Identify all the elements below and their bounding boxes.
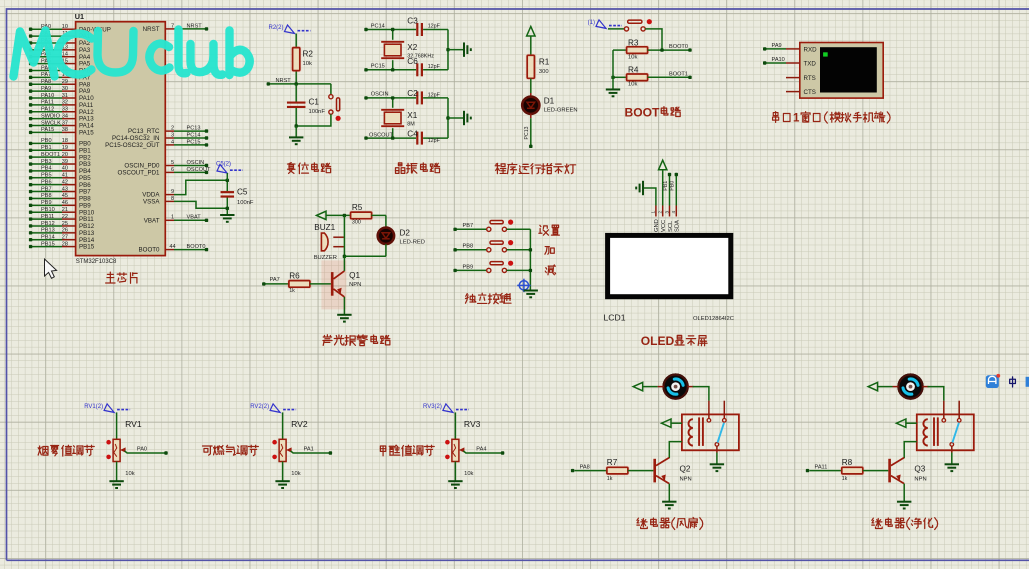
ground right of X1 [464,111,471,125]
resistor R2 [291,46,313,72]
svg-text:39: 39 [62,159,68,165]
svg-text:22: 22 [62,214,68,220]
svg-text:U1: U1 [75,12,84,21]
svg-text:PB9: PB9 [41,200,52,206]
ground below C5 [220,215,234,222]
wire coil bottom to collector [669,442,682,459]
ground Q2 [662,502,676,509]
ground right of X2 [464,42,471,56]
svg-text:NRST: NRST [187,23,203,29]
svg-text:SWDIO: SWDIO [41,113,61,119]
svg-text:45: 45 [62,193,68,199]
wire coil top [671,422,682,424]
ground relay switch [945,446,959,471]
transistor Q3 [888,458,926,502]
svg-text:7: 7 [171,23,174,29]
wiper wire PA1 [286,447,332,455]
resistor R4 [611,66,691,88]
key PB7 [453,220,530,232]
relay RL1 [682,401,739,451]
svg-text:BOOT0: BOOT0 [139,247,161,254]
pin VSSA (8) wire [143,196,227,209]
capacitor C2 [407,89,440,105]
svg-text:4: 4 [671,211,676,214]
svg-text:PA9: PA9 [41,86,51,92]
label 声光报警电路 [323,335,390,346]
svg-text:46: 46 [62,200,68,206]
svg-text:PA4: PA4 [476,447,486,453]
label 晶振电路 [395,163,439,174]
svg-text:PB5: PB5 [41,173,52,179]
svg-text:BOOT1: BOOT1 [41,152,60,158]
svg-text:PC13: PC13 [187,126,201,132]
svg-text:PB0: PB0 [41,138,52,144]
svg-text:RV3: RV3 [464,419,481,429]
wire coil bottom to collector [904,442,917,459]
svg-text:12pF: 12pF [428,92,441,98]
crystal X1 group wires [364,96,464,140]
pin VBAT (1) [144,215,208,225]
reset push button [295,84,341,128]
OLED pin stubs [651,206,681,233]
pin NRST (7) [143,23,209,33]
power flag RV2(2) [250,404,296,413]
svg-text:PA7: PA7 [270,277,280,283]
svg-text:LCD1: LCD1 [604,313,626,323]
transistor Q2 [653,458,691,502]
svg-text:PA12: PA12 [41,107,54,113]
label 主芯片 [106,272,137,283]
svg-text:BOOT0: BOOT0 [187,244,206,250]
svg-text:1k: 1k [607,476,613,482]
potentiometer RV3 [445,412,481,477]
svg-text:31: 31 [62,93,68,99]
capacitor C3 [407,16,440,36]
ground reset [289,126,303,144]
svg-text:CTS: CTS [804,89,816,96]
svg-text:PC15: PC15 [187,139,201,145]
svg-text:21: 21 [62,207,68,213]
svg-text:100nF: 100nF [237,200,254,206]
wire coil top [906,422,917,424]
svg-text:PB7: PB7 [463,223,474,229]
svg-text:R1: R1 [539,58,550,67]
pin CTS stub [786,91,800,93]
wiper wire PA4 [459,447,504,455]
svg-text:D2: D2 [400,228,411,237]
svg-text:40: 40 [62,166,68,172]
left PA pin wires [29,24,111,137]
boot button [608,19,662,50]
OLED display LCD1 [604,235,734,322]
svg-text:PB3: PB3 [41,159,52,165]
svg-text:37: 37 [62,120,68,126]
svg-text:10k: 10k [464,471,473,477]
ground RV1 [109,462,123,489]
svg-text:PB1: PB1 [41,145,52,151]
ground keys [524,291,538,298]
svg-text:R6: R6 [289,271,300,280]
svg-text:X1: X1 [407,111,417,120]
resistor R1 [526,36,550,80]
chip U1 STM32F103C8 [75,12,165,265]
svg-text:LED-GREEN: LED-GREEN [544,108,578,114]
svg-text:PC13: PC13 [524,126,530,139]
wiper wire PA0 [120,447,168,455]
svg-text:(1): (1) [588,20,595,26]
svg-text:SCL: SCL [668,220,674,232]
svg-text:RV3(2): RV3(2) [423,404,442,410]
svg-text:33: 33 [62,107,68,113]
svg-text:OSCIN: OSCIN [187,160,205,166]
svg-text:14: 14 [62,52,68,58]
svg-text:SWCLK: SWCLK [41,120,61,126]
buzzer BUZ1 [314,223,344,261]
svg-text:PA8: PA8 [580,464,590,470]
pin BOOT0 (44) [139,244,209,254]
svg-text:RV1: RV1 [125,419,142,429]
svg-text:NRST: NRST [276,78,292,84]
svg-text:C4: C4 [407,130,418,139]
wire PA10-TXD [763,57,800,65]
svg-text:PB12: PB12 [41,221,55,227]
wire motor [643,387,709,401]
wire motor [877,387,943,401]
crystal X1 [381,110,418,128]
svg-text:NPN: NPN [349,282,361,288]
label BOOT电路 [625,106,681,120]
svg-text:BOOT0: BOOT0 [669,44,688,50]
svg-text:18: 18 [62,138,68,144]
resistor R5 [326,203,386,226]
svg-text:BUZZER: BUZZER [314,255,337,261]
power arrow relay coil [662,419,672,427]
svg-text:C5(2): C5(2) [216,162,231,168]
svg-text:5: 5 [171,160,174,166]
label 加 [545,247,554,255]
svg-text:10k: 10k [628,82,637,88]
ground boot [606,50,620,96]
svg-text:RV1(2): RV1(2) [84,404,103,410]
svg-text:6: 6 [171,167,174,173]
key PB8 [453,240,530,252]
svg-text:PB11: PB11 [41,214,54,220]
key PB9 [453,261,530,273]
net PC13 wire [524,114,533,148]
svg-text:BUZ1: BUZ1 [314,223,335,232]
svg-text:300: 300 [352,220,361,226]
power flag (1) [588,20,622,29]
svg-text:26: 26 [62,228,68,234]
svg-text:28: 28 [62,241,68,247]
svg-text:PB15: PB15 [79,244,95,251]
svg-text:10k: 10k [125,471,134,477]
svg-text:C6: C6 [407,57,418,66]
watermark MCUclub [14,30,250,77]
svg-text:PB1: PB1 [663,181,669,191]
svg-text:VBAT: VBAT [187,215,202,221]
virtual terminal box [800,43,883,99]
svg-text:2: 2 [171,126,174,132]
svg-text:3: 3 [664,211,669,214]
svg-text:PC14: PC14 [371,23,385,29]
resistor R3 [613,38,692,60]
svg-text:PB8: PB8 [463,244,474,250]
crystal X2 group wires [364,28,464,72]
svg-text:1: 1 [171,215,174,221]
pins PC13 PC14 PC15 [105,126,208,150]
svg-text:BOOT1: BOOT1 [669,71,688,77]
svg-text:4: 4 [171,139,174,145]
wire OLED VCC power [659,160,667,205]
svg-text:PA1: PA1 [304,447,314,453]
wire NRST net [267,34,331,86]
ground RV2 [275,462,289,489]
left PB pin wires [29,138,95,251]
svg-text:3: 3 [171,132,174,138]
svg-text:RXD: RXD [804,46,818,53]
capacitor C1 [287,84,325,126]
svg-text:C3: C3 [407,16,418,25]
svg-text:RV2: RV2 [291,419,308,429]
svg-text:LED-RED: LED-RED [400,239,425,245]
svg-text:SDA: SDA [675,220,681,232]
svg-text:PB4: PB4 [41,166,52,172]
svg-text:PA10: PA10 [772,57,785,63]
svg-text:D1: D1 [544,97,555,106]
svg-text:C5: C5 [237,188,248,197]
svg-text:RV2(2): RV2(2) [250,404,269,410]
svg-text:OSCIN: OSCIN [371,92,389,98]
label 减 [545,265,555,275]
svg-text:Q3: Q3 [914,465,925,474]
svg-text:C1: C1 [309,98,320,107]
svg-text:1k: 1k [842,476,848,482]
svg-text:NPN: NPN [914,476,926,482]
svg-text:R5: R5 [352,203,363,212]
svg-text:42: 42 [62,179,68,185]
svg-text:PB9: PB9 [463,264,474,270]
svg-text:VSSA: VSSA [143,199,160,206]
svg-text:PB0: PB0 [670,181,676,191]
svg-text:10k: 10k [628,54,637,60]
svg-text:VBAT: VBAT [144,217,160,224]
wire PA9-RXD [763,43,800,51]
svg-text:OSCOUT_PD1: OSCOUT_PD1 [118,170,161,177]
pin VDDA (9) wire [142,180,227,198]
origin marker [517,279,530,292]
svg-text:R2: R2 [303,50,314,59]
mouse cursor [45,259,57,278]
wire buzzer vertical [343,215,386,258]
label 可燃气调节 [203,445,259,455]
svg-text:TXD: TXD [804,60,817,67]
label 设置 [539,225,559,235]
svg-text:41: 41 [62,173,68,179]
svg-text:PA11: PA11 [815,464,828,470]
label 烟雾值调节 [38,445,94,456]
svg-text:PA11: PA11 [41,100,54,106]
svg-text:43: 43 [62,186,68,192]
power flag RV1(2) [84,404,130,413]
potentiometer RV1 [106,412,142,477]
svg-text:R3: R3 [628,38,639,47]
svg-text:8M: 8M [407,122,415,128]
svg-text:OSCOUT: OSCOUT [369,132,394,138]
power flag R2(2) [268,25,310,34]
ground Q3 [897,502,911,509]
svg-text:2: 2 [658,211,663,214]
pin RTS stub [786,77,800,79]
svg-text:VCC: VCC [661,220,667,232]
svg-text:1k: 1k [289,288,295,294]
svg-text:BOOT: BOOT [625,106,660,120]
ground relay switch [710,446,724,471]
transistor Q1 [331,256,361,315]
label 继电器(净化) [872,518,938,530]
svg-text:1: 1 [793,113,800,125]
resistor R7 [571,458,654,482]
svg-text:PA15: PA15 [41,127,54,133]
svg-text:19: 19 [62,145,68,151]
taskbar icon blue [986,374,1000,388]
svg-text:8: 8 [171,196,174,202]
svg-text:PA15: PA15 [79,130,94,137]
svg-text:20: 20 [62,152,68,158]
svg-text:X2: X2 [407,43,417,52]
motor fan [662,373,688,399]
key bus wire [529,229,532,290]
power arrow motor [868,382,878,390]
svg-text:Q2: Q2 [680,465,691,474]
svg-text:PB6: PB6 [41,179,52,185]
taskbar icon partial [1026,377,1029,387]
svg-text:PB15: PB15 [41,241,55,247]
svg-text:12pF: 12pF [428,64,441,70]
svg-text:R2(2): R2(2) [268,25,283,31]
wire OLED SCL [663,173,671,206]
svg-text:10: 10 [62,24,68,30]
svg-text:12pF: 12pF [428,24,441,30]
svg-text:300: 300 [539,69,549,75]
power arrow motor [633,382,643,390]
taskbar icon 中 [1010,377,1016,387]
svg-text:PB14: PB14 [41,235,55,241]
wire OLED SDA [670,173,678,206]
resistor R8 [806,458,889,482]
label 甲醛值调节 [380,445,434,456]
ground RV3 [448,462,462,489]
svg-text:25: 25 [62,221,68,227]
svg-text:PB7: PB7 [41,186,52,192]
LED D2 [377,215,425,256]
svg-text:44: 44 [169,244,175,250]
resistor R6 [262,271,331,294]
power flag RV3(2) [423,404,469,413]
svg-text:PB13: PB13 [41,228,55,234]
svg-text:10k: 10k [291,471,300,477]
power arrow relay coil [896,419,906,427]
svg-text:PC14: PC14 [187,132,201,138]
power arrow D1 [527,27,535,37]
crystal X2 [381,42,434,60]
svg-text:R4: R4 [628,66,639,75]
svg-text:PB10: PB10 [41,207,55,213]
label 复位电路 [288,163,331,174]
svg-text:29: 29 [62,79,68,85]
svg-text:12pF: 12pF [428,138,441,144]
svg-text:34: 34 [62,113,68,119]
svg-text:PC15: PC15 [371,64,385,70]
capacitor C6 [407,57,440,76]
capacitor C5 [221,179,254,215]
svg-text:9: 9 [171,189,174,195]
label 串口1窗口（模拟手机端） [773,112,891,125]
svg-text:PA10: PA10 [41,93,54,99]
transistor Q1 highlight [321,260,346,309]
wire OLED GND [636,181,656,206]
svg-text:PA8: PA8 [41,79,51,85]
svg-text:10k: 10k [303,61,312,67]
relay RL2 [917,401,974,451]
svg-text:38: 38 [62,127,68,133]
svg-text:NPN: NPN [680,476,692,482]
motor fan [897,373,923,399]
svg-text:C2: C2 [407,89,418,98]
svg-text:R7: R7 [607,458,618,467]
svg-text:PB8: PB8 [41,193,52,199]
svg-text:RTS: RTS [804,75,816,82]
svg-text:GND: GND [654,219,660,232]
svg-text:100nF: 100nF [309,109,326,115]
label 继电器(风扇) [637,517,703,529]
svg-text:OLED12864I2C: OLED12864I2C [693,316,734,322]
pins OSCIN OSCOUT [118,160,211,177]
power flag C5(2) [216,162,243,181]
svg-text:R8: R8 [842,458,853,467]
label 独立按键 [465,293,511,304]
svg-text:PA0: PA0 [137,447,147,453]
svg-text:PC15-OSC32_OUT: PC15-OSC32_OUT [105,142,160,149]
svg-text:27: 27 [62,235,68,241]
svg-text:PA9: PA9 [772,43,782,49]
capacitor C4 [407,130,440,145]
svg-text:1: 1 [651,211,656,214]
potentiometer RV2 [272,412,308,477]
svg-text:OSCOUT: OSCOUT [187,167,212,173]
svg-text:NRST: NRST [143,26,160,33]
power arrow R5 [317,211,327,219]
ground Q1 [337,315,351,322]
label OLED显示屏 [641,334,707,348]
svg-text:OLED: OLED [641,334,675,348]
LED D1 [521,79,578,116]
svg-text:Q1: Q1 [349,271,360,280]
svg-text:30: 30 [62,86,68,92]
svg-text:32: 32 [62,100,68,106]
label 程序运行指示灯 [495,163,575,174]
svg-text:STM32F103C8: STM32F103C8 [76,259,117,265]
